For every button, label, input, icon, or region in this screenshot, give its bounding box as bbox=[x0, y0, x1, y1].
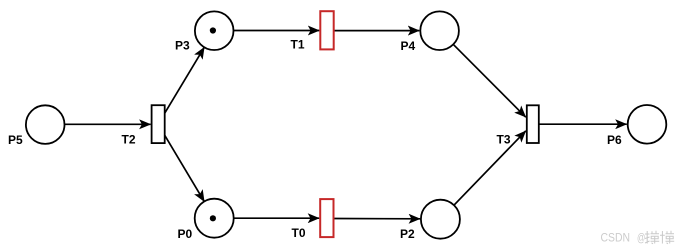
wire T2 to P3 bbox=[158, 47, 204, 124]
svg-text:T3: T3 bbox=[497, 133, 511, 147]
transition T3 bbox=[497, 105, 539, 146]
place P4 bbox=[401, 11, 459, 53]
place P5 bbox=[8, 105, 65, 147]
place P2 bbox=[400, 200, 460, 241]
wire P4 to T3 bbox=[440, 31, 526, 118]
wire P3 to T1 bbox=[234, 30, 320, 32]
svg-text:CSDN: CSDN bbox=[601, 231, 631, 245]
place P6 bbox=[607, 105, 666, 147]
transition T1 (red) bbox=[291, 11, 334, 51]
wire T2 to P0 bbox=[158, 124, 204, 201]
wire T3 to P6 bbox=[539, 123, 627, 125]
place P0 (with token) bbox=[178, 199, 234, 241]
svg-text:T1: T1 bbox=[291, 38, 305, 52]
transition T2 bbox=[122, 105, 165, 146]
svg-text:P5: P5 bbox=[8, 133, 23, 147]
svg-text:P2: P2 bbox=[400, 227, 415, 241]
svg-text:P3: P3 bbox=[175, 39, 190, 53]
wire P5 to T2 bbox=[65, 123, 151, 125]
place P3 (with token) bbox=[175, 11, 234, 52]
svg-text:@: @ bbox=[637, 231, 645, 245]
wire P0 to T0 bbox=[234, 217, 320, 219]
wire T0 to P2 bbox=[334, 218, 420, 220]
transition T0 (red) bbox=[292, 199, 334, 240]
watermark glyph bo1 bbox=[645, 231, 659, 244]
svg-text:T0: T0 bbox=[292, 226, 306, 240]
svg-text:P0: P0 bbox=[178, 227, 193, 241]
wire P2 to T3 bbox=[440, 131, 525, 219]
svg-text:P6: P6 bbox=[607, 133, 622, 147]
watermark CSDN bbox=[601, 231, 675, 245]
svg-text:T2: T2 bbox=[122, 133, 136, 147]
svg-text:P4: P4 bbox=[401, 39, 416, 53]
watermark glyph bo2 bbox=[660, 231, 674, 244]
wire T1 to P4 bbox=[334, 30, 419, 32]
